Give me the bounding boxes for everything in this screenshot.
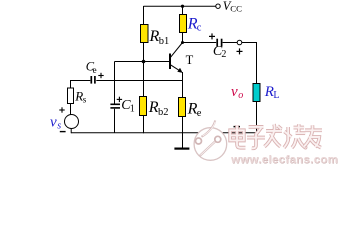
capacitor C1 plates [110,103,120,105]
wire: Rb2 column (base junction to ground rail) [143,62,145,134]
polarity - of vs [60,131,66,133]
label vo (red) [231,84,243,101]
wire: C1 column lower (C1 bottom plate to ground rail) [114,109,116,133]
svg-text:b2: b2 [158,107,169,118]
terminal: VCC open circle [216,4,220,8]
svg-text:L: L [273,90,279,101]
svg-text:v: v [50,114,57,130]
node: base junction dot [142,60,146,64]
polarity + of vs [59,107,64,112]
svg-text:v: v [231,84,238,100]
label C2 [213,44,227,60]
label VCC [223,0,242,14]
label Rc (blue) [187,15,202,33]
watermark url: www.elecfans.com [230,154,338,167]
svg-text:b1: b1 [159,36,170,47]
watermark text: 友 [304,125,322,147]
terminal: output open circle [237,40,242,45]
polarity + of vo (below output terminal) [237,48,243,54]
transistor T: collector lead [171,43,183,58]
label Rb1 [149,28,170,47]
svg-text:e: e [197,108,202,119]
watermark text: 烧 [284,124,306,148]
svg-text:www.elecfans.com: www.elecfans.com [230,154,338,166]
wire: base rail (C1 top corner to base) [115,61,170,63]
svg-text:o: o [238,90,243,101]
wire: bottom ground rail [71,132,257,134]
label Ce [86,60,97,75]
ground symbol [174,133,189,149]
wire: C2 to output terminal [223,42,238,44]
source vs circle [65,115,79,129]
watermark text: 发 [264,124,281,146]
svg-text:2: 2 [221,49,226,60]
resistor Rs (white) [68,88,74,104]
polarity + of Ce [98,73,103,78]
wire: vs to ground rail [70,129,72,134]
label Re [187,101,202,119]
svg-text:CC: CC [230,4,242,14]
wire: Rs to vs source [70,104,72,115]
resistor Re [179,98,186,117]
polarity + of C1 [117,97,122,102]
wire: output terminal to RL column [242,43,257,84]
svg-text:c: c [197,22,202,33]
node: collector junction dot [181,41,184,44]
polarity + left of C2 [209,33,215,39]
svg-text:s: s [83,95,87,105]
watermark text: 电 [230,125,245,147]
polarity - of vo [234,126,241,128]
watermark text: 子 [247,127,265,148]
resistor Rc [180,15,187,33]
transistor T: emitter lead with arrow [171,65,182,72]
label Rs [74,88,87,104]
transistor T: base bar [169,54,171,70]
node: top rail / Rc junction dot [181,5,184,8]
svg-text:1: 1 [130,104,135,115]
wire: emitter column (arrow tip through Re to ground rail) [182,72,184,133]
wire: collector node to C2 [183,42,217,44]
svg-text:T: T [186,53,194,67]
resistor Rb1 [141,25,149,43]
svg-text:s: s [57,120,61,131]
label C1 [121,98,135,114]
watermark logo: elecfans circle [194,121,227,161]
label RL (blue) [264,84,280,101]
wire: C1 column upper (base rail down to C1 top plate) [114,62,116,104]
label Rb2 [148,99,169,118]
wire: Rb1 column (top rail to base rail) [143,6,145,62]
label vs (blue) [50,114,61,131]
capacitor Ce plates [90,76,92,84]
wire: input rail from Ce to emitter column [96,80,182,82]
resistor Rb2 [140,97,147,116]
resistor RL (cyan) [253,84,260,102]
wire: Rc column (top rail to collector node) [182,6,184,43]
wire: RL to ground rail [256,102,258,134]
wire: Ce left lead and corner down to Rs [71,81,91,89]
wire: VCC top rail [144,5,217,7]
svg-text:e: e [93,65,97,75]
capacitor C2 plates [216,39,218,47]
